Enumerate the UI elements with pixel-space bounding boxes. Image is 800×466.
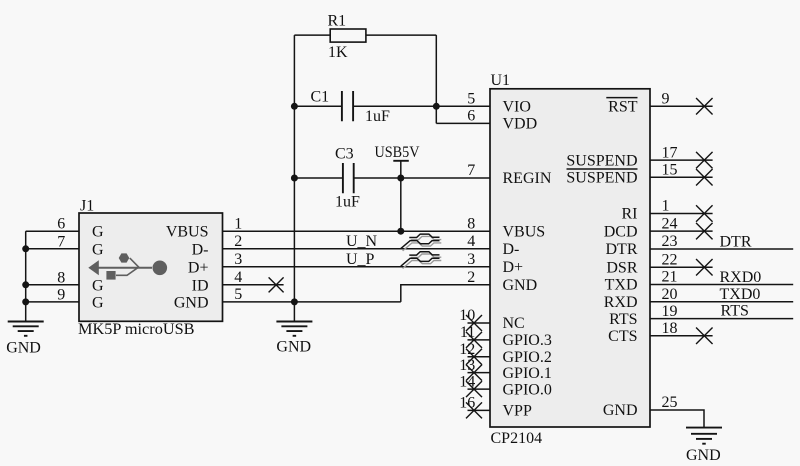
svg-text:GND: GND: [503, 277, 538, 294]
svg-text:4: 4: [467, 233, 475, 250]
node REGIN junction: [397, 175, 404, 182]
connector J1 box: [78, 198, 223, 339]
ferrite squiggle FB1: [401, 234, 442, 251]
no-connect X pin 1: [696, 205, 713, 222]
svg-text:2: 2: [467, 269, 475, 286]
svg-text:U_N: U_N: [346, 233, 378, 250]
no-connect X VPP pin16: [466, 402, 482, 418]
wire VBUS net J1.1 to U1.8: [223, 230, 491, 232]
wire left rail x294: [293, 35, 295, 321]
no-connect X pin 17: [696, 152, 713, 169]
connector J1 left pin labels: [92, 224, 104, 312]
wire U1 pin 15 stub: [650, 176, 713, 178]
wire U1 GND pin2 with step: [401, 285, 490, 302]
svg-text:SUSPEND: SUSPEND: [566, 152, 637, 169]
svg-text:25: 25: [662, 394, 678, 411]
svg-text:1: 1: [662, 198, 670, 215]
svg-text:DCD: DCD: [604, 223, 638, 240]
overline RST: [606, 97, 637, 99]
wire stub GPIO.0 pin14: [468, 388, 491, 390]
svg-text:7: 7: [57, 233, 65, 250]
wire stub GPIO.2 pin12: [468, 356, 491, 358]
ground bottom right: [686, 428, 722, 464]
wire D+ net U_P: [223, 266, 491, 268]
svg-text:17: 17: [662, 144, 678, 161]
svg-text:22: 22: [662, 251, 678, 268]
wire R1 left lead: [294, 34, 330, 36]
no-connect X pin 15: [696, 169, 713, 186]
pin numbers U1 left: [459, 91, 475, 412]
svg-text:REGIN: REGIN: [503, 170, 552, 187]
svg-text:RXD: RXD: [604, 294, 638, 311]
svg-text:RTS: RTS: [721, 303, 749, 320]
wire right rail x436: [435, 35, 437, 123]
wire stub VPP pin16: [468, 409, 491, 411]
svg-text:TXD: TXD: [605, 277, 638, 294]
wire J1 pin6: [26, 230, 79, 232]
connector J1 right pin labels: [166, 224, 209, 312]
wire U1 pin 21 net RXD0: [650, 284, 793, 286]
svg-text:23: 23: [662, 233, 678, 250]
wire J1 left rail: [25, 231, 27, 321]
svg-text:MK5P microUSB: MK5P microUSB: [78, 321, 195, 338]
svg-text:GPIO.2: GPIO.2: [503, 349, 552, 366]
svg-text:GND: GND: [174, 294, 209, 311]
IC U1 left pin names: [503, 99, 552, 420]
wire J1 pin9: [26, 301, 79, 303]
no-connect X GPIO.2 pin12: [466, 349, 482, 365]
wire U1 pin 9 stub: [650, 105, 713, 107]
svg-text:G: G: [92, 241, 104, 258]
svg-text:GPIO.1: GPIO.1: [503, 365, 552, 382]
svg-text:C1: C1: [311, 89, 330, 106]
wire VDD pin6: [436, 122, 490, 124]
capacitor C3: [335, 146, 360, 211]
svg-text:TXD0: TXD0: [720, 286, 761, 303]
svg-text:D+: D+: [188, 259, 209, 276]
svg-text:8: 8: [467, 215, 475, 232]
power USB5V: [375, 144, 420, 231]
svg-text:8: 8: [57, 269, 65, 286]
ferrite squiggle FB2: [401, 252, 442, 269]
wire C1 right to U1 pin5 VIO: [353, 105, 490, 107]
node J1 pin9 junction: [22, 298, 29, 305]
no-connect X GPIO.1 pin13: [466, 365, 482, 381]
svg-text:VBUS: VBUS: [503, 223, 546, 240]
svg-text:18: 18: [662, 320, 678, 337]
USB icon in J1: [88, 253, 167, 279]
svg-text:3: 3: [467, 251, 475, 268]
svg-text:DTR: DTR: [606, 241, 638, 258]
svg-text:DTR: DTR: [720, 233, 752, 250]
capacitor C1: [311, 89, 391, 126]
svg-text:GND: GND: [686, 447, 721, 464]
wire GND net J1.5: [223, 301, 401, 303]
svg-text:D-: D-: [192, 241, 209, 258]
no-connect X pin 18: [696, 328, 713, 345]
wire D- net U_N: [223, 248, 491, 250]
no-connect X pin 22: [696, 259, 713, 276]
svg-text:5: 5: [234, 286, 242, 303]
svg-text:RTS: RTS: [609, 311, 637, 328]
svg-text:U1: U1: [491, 72, 511, 89]
overline SUSPEND pin15: [567, 168, 638, 170]
svg-text:J1: J1: [80, 198, 94, 215]
pin numbers U1 right: [662, 91, 678, 412]
wire U1 pin 20 net TXD0: [650, 301, 793, 303]
svg-text:24: 24: [662, 215, 678, 232]
svg-text:2: 2: [234, 233, 242, 250]
pin numbers J1 left: [57, 216, 65, 304]
svg-text:DSR: DSR: [606, 259, 637, 276]
wire U1 pin 1 stub: [650, 213, 713, 215]
wire U1 pin 24 stub: [650, 230, 713, 232]
svg-text:GPIO.0: GPIO.0: [503, 381, 552, 398]
wire R1 right lead: [366, 34, 436, 36]
svg-text:VDD: VDD: [503, 116, 538, 133]
svg-text:21: 21: [662, 269, 678, 286]
svg-text:7: 7: [467, 162, 475, 179]
node C3 left junction: [291, 175, 298, 182]
svg-text:VBUS: VBUS: [166, 224, 209, 241]
svg-text:D-: D-: [503, 241, 520, 258]
svg-text:G: G: [92, 277, 104, 294]
no-connect X NC pin10: [466, 315, 482, 331]
wire U1 pin 22 stub: [650, 266, 713, 268]
svg-text:1uF: 1uF: [335, 194, 360, 211]
no-connect X GPIO.0 pin14: [466, 381, 482, 397]
wire C3 left: [294, 177, 343, 179]
svg-text:RXD0: RXD0: [720, 269, 762, 286]
svg-text:9: 9: [662, 91, 670, 108]
wire C1 left: [294, 105, 342, 107]
svg-text:G: G: [92, 224, 104, 241]
svg-text:USB5V: USB5V: [375, 144, 420, 161]
wire U1 pin 23 net DTR: [650, 248, 793, 250]
node VIO junction: [433, 103, 440, 110]
wire J1 pin8: [26, 284, 79, 286]
svg-text:U_P: U_P: [346, 251, 375, 268]
svg-text:CTS: CTS: [608, 328, 637, 345]
wire J1 pin7: [26, 248, 79, 250]
wire C3 right to U1 pin7 REGIN: [354, 177, 490, 179]
wire U1 pin 19 net RTS: [650, 318, 793, 320]
svg-text:5: 5: [467, 91, 475, 108]
svg-text:6: 6: [467, 108, 475, 125]
svg-text:ID: ID: [192, 277, 209, 294]
resistor R1: [328, 13, 366, 62]
svg-text:15: 15: [662, 161, 678, 178]
svg-text:9: 9: [57, 286, 65, 303]
wire U1 pin 17 stub: [650, 159, 713, 161]
wire U1 pin25 GND: [650, 410, 704, 428]
svg-text:1: 1: [234, 215, 242, 232]
svg-text:GND: GND: [276, 339, 311, 356]
wire stub NC pin10: [468, 322, 491, 324]
svg-text:6: 6: [57, 216, 65, 233]
svg-text:GND: GND: [6, 340, 41, 357]
wire U1 pin 18 stub: [650, 335, 713, 337]
no-connect X pin 24: [696, 223, 713, 240]
node J1 pin7 junction: [22, 245, 29, 252]
node J1 pin8 junction: [22, 281, 29, 288]
net labels right side: [720, 233, 762, 319]
svg-text:RST: RST: [608, 99, 638, 116]
svg-text:SUSPEND: SUSPEND: [566, 169, 637, 186]
no-connect X on ID: [269, 277, 284, 292]
svg-text:1uF: 1uF: [365, 108, 390, 125]
pin numbers J1 right: [234, 215, 242, 303]
node C1 left junction: [291, 103, 298, 110]
IC U1 right pin names: [566, 99, 637, 420]
svg-text:D+: D+: [503, 259, 524, 276]
svg-text:1K: 1K: [328, 44, 348, 61]
no-connect X pin 9: [696, 98, 713, 115]
svg-text:R1: R1: [328, 13, 347, 30]
node GND rail junction: [291, 298, 298, 305]
ground left: [6, 322, 44, 357]
wire stub GPIO.1 pin13: [468, 372, 491, 374]
svg-text:GND: GND: [603, 402, 638, 419]
svg-text:CP2104: CP2104: [491, 430, 543, 447]
no-connect X GPIO.3 pin11: [466, 332, 482, 348]
svg-text:VIO: VIO: [503, 99, 531, 116]
svg-text:NC: NC: [503, 315, 525, 332]
svg-text:VPP: VPP: [503, 403, 532, 420]
ground middle: [276, 322, 312, 356]
svg-text:RI: RI: [622, 206, 638, 223]
wire stub GPIO.3 pin11: [468, 339, 491, 341]
svg-text:G: G: [92, 294, 104, 311]
IC U1 box: [490, 72, 650, 447]
node VBUS junction: [397, 228, 404, 235]
wire ID stub J1.4: [223, 284, 284, 286]
svg-text:C3: C3: [335, 146, 354, 163]
svg-text:19: 19: [662, 303, 678, 320]
svg-text:GPIO.3: GPIO.3: [503, 332, 552, 349]
svg-text:20: 20: [662, 286, 678, 303]
svg-text:3: 3: [234, 251, 242, 268]
svg-text:4: 4: [234, 269, 242, 286]
